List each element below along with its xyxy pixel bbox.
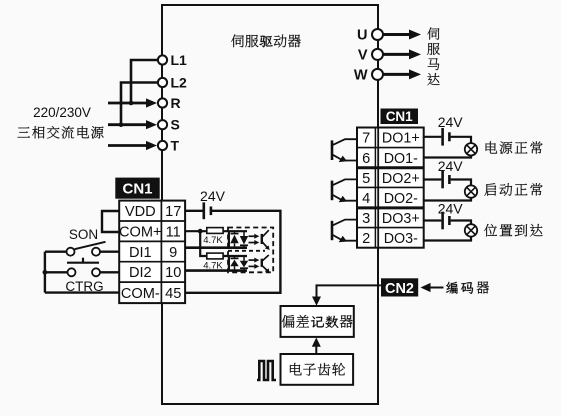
svg-text:DI2: DI2 [129,265,152,281]
wire battery to lamp [451,221,471,225]
wire DI1 to opto LED1 bottom [185,246,247,249]
svg-text:DO1-: DO1- [384,151,418,167]
battery 24V plates [441,171,444,189]
wire DO+ to battery [424,219,442,221]
wire battery to lamp [451,137,471,143]
terminal U [372,29,383,40]
indicator lamp [465,185,477,197]
opto LED up diode [230,260,238,267]
wire L2 jumper to S [121,83,158,124]
label 启动正常 [484,183,496,196]
arrow into T [108,144,148,147]
terminal L1 [158,55,167,64]
svg-text:DO3+: DO3+ [382,211,420,227]
optocoupler dashed box [228,228,273,273]
svg-text:4.7K: 4.7K [203,235,223,246]
svg-text:24V: 24V [438,114,464,130]
connector CN1 (right) pin table [357,128,424,248]
wire DO+ to battery [424,178,442,180]
svg-text:17: 17 [165,204,181,220]
wire battery to lamp [451,180,471,186]
wire DI2 to opto LED2 bottom [185,269,247,272]
terminal L2 [158,78,167,87]
optocoupler divider [228,250,265,252]
opto phototransistor [261,259,263,267]
opto phototransistor [261,234,263,244]
junction on R line [129,101,134,106]
label 电源正常 [486,141,497,153]
label 位置到达 [484,224,497,237]
resistor 4.7K (2) [207,253,223,259]
battery 24V plates [441,212,444,230]
svg-text:CN2: CN2 [385,281,414,297]
label 编码器 [446,282,457,294]
opto light arrows [249,235,255,237]
svg-text:DO3-: DO3- [384,231,418,247]
svg-text:24V: 24V [200,188,226,204]
label 三相交流电源 [17,127,30,137]
svg-text:DO1+: DO1+ [382,131,420,147]
arrow encoder into CN2 [429,287,444,289]
indicator lamp [465,224,477,236]
wire COM+ to opto LED1 top [185,230,247,232]
svg-text:DI1: DI1 [129,245,152,261]
terminal T [158,141,167,150]
label 伺服马达 vertical [427,28,439,40]
button CTRG contacts [68,268,76,276]
wire L1 jumper to R [131,60,158,102]
jumper wire VDD to COM+ [102,211,120,232]
wire lamp to DO- [424,198,471,201]
svg-text:VDD: VDD [125,204,156,220]
wire DO+ to battery [424,136,442,138]
svg-text:CN1: CN1 [386,109,413,124]
svg-text:DO2-: DO2- [384,191,418,207]
switch SON [67,248,75,256]
block 偏差记数器 [281,306,354,337]
terminal W [372,69,383,80]
svg-text:V: V [358,48,368,64]
common bus wire to COM- [44,252,46,293]
battery 24V plates [441,128,444,146]
opto LED down diode [240,261,248,268]
arrow into R [108,102,148,105]
connector CN1 (left) header [115,178,159,199]
connector CN2 [381,278,418,296]
pulse train symbol [257,361,276,380]
svg-text:4: 4 [362,191,370,207]
arrow gear to counter [315,342,317,354]
junction COM+ branch [198,229,203,234]
svg-text:SON: SON [69,227,98,242]
connector CN1 (left) pin table [119,201,185,304]
battery 24V plates [203,202,206,219]
svg-text:3: 3 [362,211,370,227]
arrow from U to motor [384,33,412,36]
connector CN1 (right) header [381,109,419,125]
svg-text:U: U [357,28,367,44]
transistor output Q3 [331,221,334,240]
svg-text:2: 2 [362,231,370,247]
opto LED pair vertical [228,231,230,248]
wire CN2 to deviation counter [317,285,381,301]
svg-text:45: 45 [165,286,181,302]
arrow into S [108,123,148,126]
arrow from W to motor [384,73,412,76]
arrow from V to motor [384,53,412,56]
svg-text:5: 5 [362,171,370,187]
terminal S [158,120,167,129]
opto LED down diode [240,236,248,245]
wire left bus to SON [45,250,67,252]
opto LED up diode [230,235,238,244]
svg-text:R: R [171,95,181,111]
title 伺服驱动器 [231,35,244,48]
wire lamp to DO- [424,237,471,241]
svg-text:DO2+: DO2+ [382,171,420,187]
svg-text:CN1: CN1 [122,181,152,198]
opto light arrows [249,259,255,261]
resistor 4.7K (1) [207,228,223,234]
branch wire to resistor 2 [200,231,247,256]
svg-text:7: 7 [362,131,370,147]
wire left bus to CTRG [45,271,68,273]
svg-text:10: 10 [165,265,181,281]
svg-text:S: S [171,117,180,133]
servo driver enclosure box [162,5,378,404]
transistor output Q2 [331,181,334,201]
indicator lamp [465,143,477,155]
wire battery around to COM- [185,211,280,293]
svg-text:L2: L2 [171,75,188,91]
svg-text:11: 11 [166,225,181,241]
wire CTRG to DI2 [100,271,120,273]
terminal R [158,98,167,107]
svg-text:220/230V: 220/230V [33,105,91,120]
terminal V [372,49,383,60]
wire lamp to DO- [424,156,471,158]
wire SON to DI1 [100,250,120,252]
svg-text:W: W [354,68,368,84]
transistor output Q1 [331,140,334,160]
button CTRG actuator [67,262,99,264]
svg-text:L1: L1 [171,52,188,68]
svg-text:COM+: COM+ [119,225,162,241]
svg-text:COM-: COM- [121,286,160,302]
svg-text:T: T [171,138,180,154]
svg-text:9: 9 [169,245,177,261]
opto LED pair vertical [228,256,230,271]
block 电子齿轮 [281,354,354,385]
junction on S line [119,122,124,127]
wire VDD to battery [185,210,203,212]
svg-text:6: 6 [362,151,370,167]
